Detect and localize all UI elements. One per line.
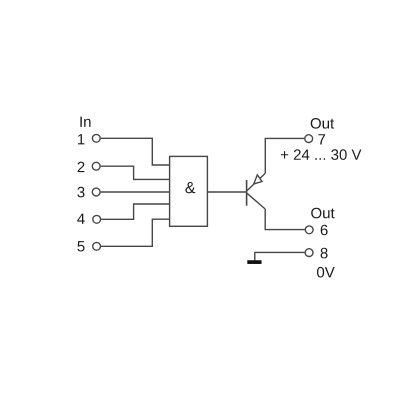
wire terminal 2 to U1 input b [101,166,170,179]
terminal 1 [92,134,100,142]
pin 5 [77,241,84,251]
terminal 4 [93,215,101,223]
wire terminal 3 to U1 input c [101,191,170,193]
wire terminal 8 to ground [255,252,305,260]
terminal 7 [305,135,313,143]
pin 8 [321,248,328,259]
pin 1 [78,134,84,144]
label 0V [317,267,335,278]
transistor Q1 emitter line [247,173,265,191]
wire terminal 5 to U1 input e [101,219,170,246]
pin 2 [78,162,85,173]
wire terminal 4 to U1 input d [101,204,169,219]
terminal 3 [92,188,100,196]
terminal 5 [93,242,101,250]
wire Q1 emitter to terminal 7 [265,138,304,173]
wire U1 output to Q1 base [207,191,246,193]
pin 3 [77,187,84,198]
terminal 2 [92,162,100,170]
pin 6 [321,225,328,236]
terminal 6 [305,226,313,234]
transistor Q1 collector line [247,193,265,209]
supply label +24...30V [281,149,362,160]
AND gate U1 body [170,156,208,226]
label In [80,117,90,127]
transistor Q1 emitter arrow (open, pointing to base) [254,175,262,184]
transistor Q1 base bar [246,180,248,206]
wire Q1 collector to terminal 6 [265,209,305,230]
label Out (bottom) [311,208,334,219]
terminal 8 [305,249,313,257]
pin 4 [77,214,85,224]
wire terminal 1 to U1 input a [101,138,170,165]
label Out (top) [311,118,334,129]
ground symbol 0V bar [247,260,261,264]
AND gate U1 symbol & [185,182,195,193]
pin 7 [318,134,325,144]
